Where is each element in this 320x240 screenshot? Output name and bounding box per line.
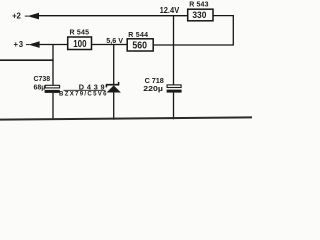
svg-text:560: 560	[132, 40, 147, 51]
resistor R543 designator	[189, 2, 208, 9]
wire: right vertical from R543 output down	[232, 16, 234, 45]
wire: vertical from 5.6V node down to D439	[113, 45, 115, 85]
svg-text:330: 330	[192, 9, 206, 20]
svg-text:5,6 V: 5,6 V	[106, 36, 123, 45]
capacitor C738 designator	[34, 74, 51, 83]
node +3 label	[14, 40, 24, 49]
terminal arrow for +3	[26, 41, 40, 48]
diode D439 type label BZX79/C5V6	[59, 91, 107, 98]
svg-text:+3: +3	[14, 40, 24, 49]
wire: left stub into node A at y=60	[0, 59, 54, 61]
svg-text:BZX79/C5V6: BZX79/C5V6	[59, 91, 107, 98]
wire: 5.6V node between R545 and R544	[92, 44, 128, 46]
svg-text:R 545: R 545	[70, 29, 90, 36]
capacitor C718 (electrolytic plates)	[167, 85, 182, 93]
capacitor C718 value	[143, 84, 163, 93]
wire: vertical from +3 rail down to C738	[52, 45, 54, 86]
svg-text:220µ: 220µ	[143, 84, 163, 93]
node +2 label	[12, 12, 21, 21]
wire: C718 to ground rail	[173, 93, 175, 120]
svg-text:+2: +2	[12, 12, 21, 21]
wire: C738 to ground rail	[52, 93, 54, 120]
node label 12.4V	[160, 6, 180, 15]
wire: D439 anode to ground rail	[113, 93, 115, 120]
resistor R544 designator	[128, 32, 148, 39]
wire: +2 rail (12.4V) top horizontal	[38, 15, 188, 17]
wire: R543 output to right vertical	[213, 15, 234, 17]
capacitor C738 value	[34, 82, 46, 91]
capacitor C718 designator	[145, 76, 164, 85]
svg-text:12.4V: 12.4V	[160, 6, 180, 15]
node label 5,6 V	[106, 36, 123, 45]
svg-text:68µ: 68µ	[34, 82, 46, 91]
diode D439 designator (underlined)	[64, 82, 106, 91]
resistor R545 designator	[70, 29, 90, 36]
wire: ground rail across bottom	[0, 117, 252, 119]
resistor R544	[127, 39, 153, 52]
resistor R543	[188, 9, 213, 21]
wire: horizontal from R544 output to right vertical	[153, 44, 234, 46]
zener diode D439	[106, 82, 121, 93]
svg-text:R 544: R 544	[128, 32, 148, 39]
resistor R545	[68, 37, 92, 50]
svg-text:100: 100	[73, 39, 87, 50]
wire: vertical from 12.4V rail down to C718 (crosses y=45 wire)	[173, 16, 175, 85]
svg-text:R 543: R 543	[189, 2, 208, 9]
capacitor C738 (electrolytic plates)	[45, 85, 60, 93]
terminal arrow for +2	[25, 13, 39, 20]
wire: +3 rail to R545 input	[39, 44, 68, 46]
